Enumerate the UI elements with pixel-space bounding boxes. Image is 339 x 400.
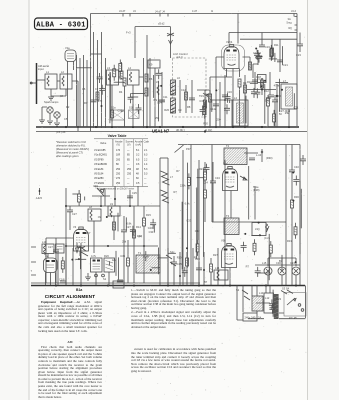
svg-text:185: 185 (116, 154, 121, 157)
svg-text:after readings given.: after readings given. (56, 154, 79, 158)
svg-text:U5A1 N7: U5A1 N7 (152, 129, 170, 134)
svg-text:V1 ECC85: V1 ECC85 (94, 149, 106, 152)
svg-text:S1: S1 (103, 277, 107, 281)
svg-text:4 d7: 4 d7 (192, 9, 198, 13)
svg-text:C1/8: C1/8 (59, 278, 65, 282)
svg-text:R4: R4 (138, 234, 142, 238)
svg-text:470: 470 (98, 99, 103, 103)
svg-text:C30: C30 (276, 261, 281, 265)
svg-text:F+3: F+3 (126, 31, 131, 35)
svg-text:25k: 25k (122, 239, 127, 243)
svg-text:C12: C12 (195, 229, 200, 233)
svg-text:250: 250 (116, 173, 121, 176)
svg-text:R31: R31 (287, 239, 292, 243)
svg-text:L13: L13 (259, 291, 264, 295)
svg-text:J4 d7: J4 d7 (119, 9, 126, 13)
svg-text:L14: L14 (215, 266, 220, 270)
svg-text:C23: C23 (296, 53, 301, 57)
svg-text:B7: B7 (204, 280, 208, 284)
svg-text:d6 J4(;): d6 J4(;) (176, 128, 185, 132)
svg-text:R11: R11 (274, 43, 279, 47)
svg-text:C21: C21 (283, 63, 288, 67)
svg-text:C35: C35 (120, 254, 125, 258)
svg-text:L15: L15 (262, 261, 267, 265)
svg-text:C27: C27 (126, 225, 131, 229)
svg-text:S3 S4: S3 S4 (282, 287, 290, 291)
svg-text:270: 270 (116, 177, 121, 180)
svg-text:R20: R20 (164, 108, 169, 112)
svg-text:Spark lamps: Spark lamps (44, 100, 59, 104)
svg-text:C20: C20 (148, 226, 153, 230)
svg-text:R4: R4 (119, 90, 123, 94)
svg-text:V5 EL84: V5 EL84 (94, 173, 104, 176)
svg-text:Cath: Cath (144, 140, 150, 144)
svg-text:C27: C27 (48, 245, 53, 249)
svg-text:B1a: B1a (76, 288, 82, 292)
svg-text:330: 330 (265, 98, 270, 102)
svg-text:C4: C4 (60, 94, 64, 98)
svg-text:25k: 25k (155, 116, 160, 120)
svg-text:C27: C27 (72, 212, 77, 216)
svg-text:170: 170 (116, 149, 121, 152)
svg-text:V2 EF89: V2 EF89 (94, 158, 104, 161)
svg-text:C9: C9 (98, 215, 102, 219)
svg-text:P.T. #5: P.T. #5 (289, 316, 297, 320)
svg-text:input: input (38, 67, 44, 71)
svg-text:R2: R2 (66, 105, 70, 109)
svg-text:1&c5: 1&c5 (36, 196, 42, 200)
svg-text:R6: R6 (149, 77, 153, 81)
svg-text:P47: P47 (186, 147, 191, 151)
svg-text:3A: 3A (288, 17, 291, 21)
svg-text:R26: R26 (104, 254, 109, 258)
svg-text:20=: 20= (217, 118, 222, 122)
svg-text:Valve: Valve (100, 141, 107, 145)
svg-text:R7: R7 (246, 265, 250, 269)
svg-text:4.7k: 4.7k (91, 254, 97, 258)
svg-text:L10: L10 (42, 240, 47, 244)
svg-text:470k: 470k (274, 84, 280, 88)
svg-text:R23: R23 (276, 297, 281, 301)
svg-text:C15: C15 (177, 262, 182, 266)
svg-text:5mg: 5mg (287, 21, 293, 25)
svg-text:C31: C31 (290, 261, 295, 265)
svg-text:V3 EABC80: V3 EABC80 (94, 163, 108, 166)
svg-text:R7: R7 (176, 169, 180, 173)
svg-text:(R28): (R28) (253, 188, 260, 192)
svg-text:(Measured on meter 20kΩ/V): (Measured on meter 20kΩ/V) (56, 147, 89, 151)
svg-text:*Receiver switched to V.M.: *Receiver switched to V.M. (56, 140, 87, 144)
svg-text:200: 200 (116, 158, 121, 161)
svg-text:R20: R20 (203, 122, 208, 126)
svg-text:C14a: C14a (210, 107, 217, 111)
svg-text:C40: C40 (294, 165, 299, 169)
svg-text:R30: R30 (294, 195, 299, 199)
svg-text:d3 d2: d3 d2 (158, 22, 165, 26)
svg-text:C25: C25 (132, 191, 137, 195)
svg-text:unit (): unit () (176, 55, 183, 59)
svg-text:C11: C11 (163, 95, 168, 99)
svg-text:(V): (V) (127, 143, 131, 147)
svg-text:C9: C9 (149, 63, 153, 67)
svg-text:R15: R15 (146, 213, 151, 217)
svg-text:6.8k: 6.8k (127, 221, 133, 225)
svg-text:L-10: L-10 (256, 153, 262, 157)
svg-text:C33: C33 (186, 219, 191, 223)
svg-text:S2: S2 (236, 288, 240, 292)
svg-text:V1a: V1a (65, 46, 70, 50)
svg-text:V4 EL84: V4 EL84 (94, 168, 104, 171)
svg-text:Valve Table: Valve Table (108, 134, 127, 138)
svg-text:C17: C17 (259, 77, 264, 81)
svg-text:C35: C35 (199, 99, 204, 103)
svg-text:ALBA - 6301: ALBA - 6301 (36, 22, 86, 30)
svg-text:(V): (V) (117, 143, 121, 147)
svg-text:240v: 240v (245, 316, 251, 320)
svg-text:(mA): (mA) (136, 143, 142, 147)
svg-text:250: 250 (127, 173, 132, 176)
svg-text:R8: R8 (187, 105, 191, 109)
svg-text:V1a ECH81: V1a ECH81 (94, 154, 108, 157)
svg-text:C33: C33 (149, 230, 154, 234)
svg-text:L12: L12 (265, 296, 270, 300)
svg-text:C9: C9 (178, 108, 182, 112)
svg-text:(R30): (R30) (266, 156, 273, 160)
svg-text:VR1: VR1 (93, 184, 99, 188)
svg-text:250: 250 (127, 168, 132, 171)
svg-text:R17: R17 (86, 231, 91, 235)
svg-text:V6 EZ80: V6 EZ80 (94, 177, 104, 180)
svg-text:C34: C34 (215, 176, 220, 180)
svg-text:47k: 47k (153, 98, 158, 102)
svg-text:250: 250 (116, 182, 121, 185)
svg-text:4i J4(): 4i J4() (205, 128, 212, 132)
svg-text:V2()4: V2()4 (226, 40, 233, 44)
svg-text:(C5.) d6: (C5.) d6 (56, 130, 66, 134)
svg-text:otherwise switched to P.U.: otherwise switched to P.U. (56, 144, 86, 148)
svg-text:(Measured at panel C7): (Measured at panel C7) (56, 151, 83, 155)
svg-text:J4 d: J4 d (291, 9, 296, 13)
svg-text:R19: R19 (177, 256, 182, 260)
svg-text:R27: R27 (213, 253, 218, 257)
svg-text:C12: C12 (181, 88, 186, 92)
svg-text:TR1: TR1 (199, 94, 204, 98)
svg-text:L9(): L9() (255, 227, 260, 231)
svg-text:C6: C6 (82, 87, 86, 91)
svg-text:J4 d7 J4: J4 d7 J4 (155, 10, 165, 14)
svg-text:C24: C24 (157, 100, 162, 104)
svg-text:C19: C19 (265, 45, 270, 49)
svg-text:R14: R14 (136, 225, 141, 229)
svg-text:250: 250 (116, 168, 121, 171)
svg-text:R(): R() (289, 26, 293, 30)
svg-text:V5b: V5b (221, 239, 226, 243)
svg-text:220k: 220k (180, 183, 186, 187)
svg-text:C7: C7 (95, 87, 99, 91)
svg-text:V3: V3 (73, 225, 77, 229)
svg-text:25k: 25k (285, 111, 290, 115)
